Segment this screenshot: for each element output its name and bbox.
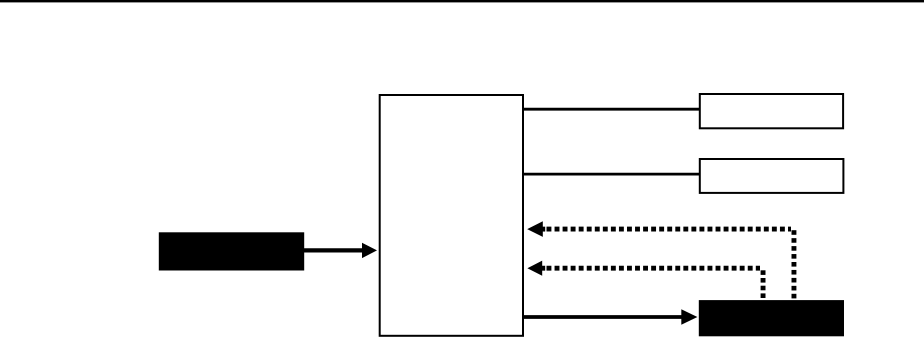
dotted feedback arrow 2 (lower) (527, 261, 765, 298)
block: central unit (white box) (380, 95, 523, 336)
dotted feedback arrow 1 (upper) (527, 221, 796, 298)
block: output box 1 (top right) (700, 94, 843, 128)
arrow: central unit to feedback box (523, 309, 697, 324)
top rule (0, 0, 924, 2)
wire: connector to output box 2 (523, 173, 700, 176)
block: output box 2 (middle right) (700, 159, 844, 193)
block: input box (left, solid black) (159, 232, 304, 270)
wire: connector to output box 1 (523, 108, 700, 111)
block: feedback box (bottom right, solid black) (699, 300, 844, 336)
arrow: input box to central unit (304, 243, 377, 258)
